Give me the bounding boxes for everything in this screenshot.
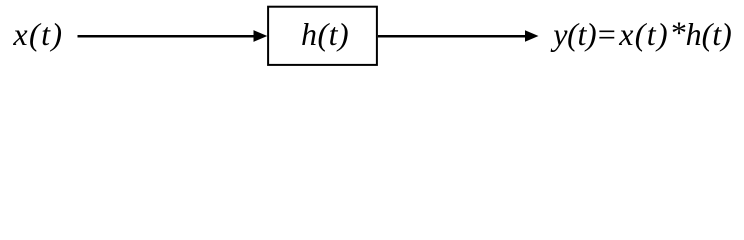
svg-text:y(t): y(t) — [550, 16, 596, 52]
svg-text:=: = — [596, 16, 618, 52]
svg-text:h(t): h(t) — [301, 16, 349, 52]
svg-text:x(t): x(t) — [618, 16, 669, 52]
svg-text:*: * — [670, 15, 686, 51]
svg-text:h(t): h(t) — [686, 16, 732, 52]
svg-text:x(t): x(t) — [12, 16, 63, 52]
